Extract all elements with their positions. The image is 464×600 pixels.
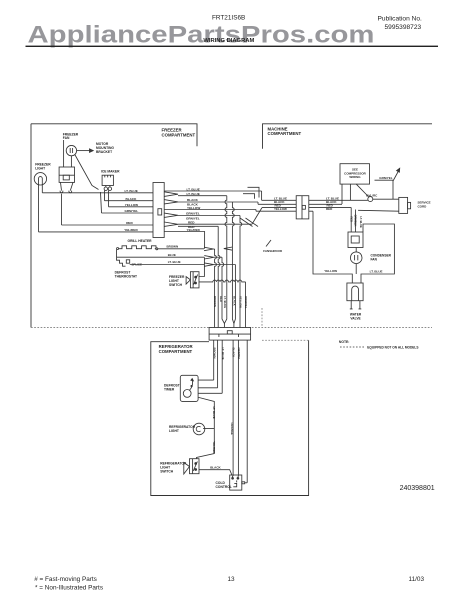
freezer light lamp	[34, 173, 46, 185]
svg-text:BLACK: BLACK	[187, 198, 199, 202]
svg-text:LT. BLUE: LT. BLUE	[223, 296, 227, 308]
svg-text:LT. BLUE: LT. BLUE	[125, 189, 138, 193]
refrigerator light switch S2	[190, 459, 200, 474]
vertical bundle grn/yel	[240, 216, 242, 328]
wire switch to bundle	[199, 280, 246, 282]
refrigerator bundle labels rotated	[212, 348, 241, 361]
fanshroud pointer	[266, 240, 271, 247]
wire joins from freezer	[252, 191, 262, 224]
svg-text:OVL/RC: OVL/RC	[366, 193, 378, 197]
svg-text:COMPARTMENT: COMPARTMENT	[162, 132, 196, 137]
wire black out	[178, 201, 258, 203]
connector block CB1 freezer bulkhead	[153, 183, 164, 238]
refrigerator dashed top	[262, 339, 309, 341]
svg-text:GRN/YEL: GRN/YEL	[186, 212, 200, 216]
svg-text:GRN/YEL: GRN/YEL	[379, 176, 393, 180]
svg-text:YELLOW: YELLOW	[324, 269, 337, 273]
bus wire red	[262, 207, 351, 209]
svg-text:13: 13	[228, 576, 236, 583]
wire red	[62, 224, 154, 226]
svg-text:RED: RED	[349, 217, 353, 223]
splice leaf lt.blue pair	[164, 192, 178, 197]
svg-text:WIRING: WIRING	[349, 175, 361, 179]
grill heater element R1	[117, 248, 119, 250]
svg-text:FANSHROUD: FANSHROUD	[263, 249, 283, 253]
svg-text:NOTE:: NOTE:	[339, 340, 350, 344]
freezer light switch S1	[190, 272, 199, 288]
wire orn/yel down to cold control tab	[246, 340, 248, 483]
svg-text:SWITCH: SWITCH	[160, 470, 174, 474]
refrigerator light lamp	[193, 423, 205, 435]
svg-text:RED: RED	[219, 296, 223, 302]
wire compressor box to lt.blue bus	[349, 184, 351, 200]
heater wire labels	[167, 245, 181, 265]
wire lt.blue out top	[164, 190, 261, 192]
wire label to fan motor box	[63, 140, 65, 167]
splice dot	[126, 260, 129, 263]
wire grn/yel	[101, 192, 154, 213]
motor mounting bracket label	[96, 142, 114, 154]
top border machine section	[263, 124, 433, 149]
svg-text:THERMOSTAT: THERMOSTAT	[115, 274, 137, 278]
svg-text:ORN/YEL: ORN/YEL	[237, 348, 241, 361]
wire red down to relay	[350, 208, 352, 233]
svg-text:BROWN: BROWN	[213, 296, 217, 307]
top border freezer section	[31, 124, 197, 146]
dashed separator freezer/machine vs lower	[31, 327, 432, 329]
svg-text:* = Non-Illustrated Parts: * = Non-Illustrated Parts	[35, 585, 103, 592]
defrost timer label	[164, 384, 180, 392]
freezer fan label	[63, 132, 79, 140]
wire fan to motor box	[70, 156, 72, 167]
wire brown	[158, 248, 204, 250]
svg-text:WIRING DIAGRAM: WIRING DIAGRAM	[203, 38, 254, 44]
wire relay to condenser fan	[355, 248, 357, 252]
timer stubs to verticals	[198, 380, 222, 393]
wire yellow out	[164, 209, 256, 211]
valve wire labels	[324, 269, 382, 273]
svg-text:BROWN: BROWN	[167, 245, 179, 249]
svg-text:# = Fast-moving Parts: # = Fast-moving Parts	[34, 576, 97, 583]
condenser fan motor M2	[350, 252, 362, 264]
refrigerator light label	[169, 425, 196, 433]
wire timer to light chain	[197, 397, 215, 458]
heater left column	[116, 250, 118, 258]
ice maker	[102, 175, 113, 185]
wire black down to cold control	[232, 340, 233, 477]
svg-text:ICE MAKER: ICE MAKER	[101, 169, 120, 173]
svg-text:RED: RED	[326, 207, 333, 211]
wire lt.blue timer down	[217, 340, 219, 388]
svg-text:YELLOW: YELLOW	[274, 207, 287, 211]
wire down to cold control right	[237, 340, 240, 477]
svg-text:LT. BLUE: LT. BLUE	[370, 269, 383, 273]
svg-text:GRN/YEL: GRN/YEL	[125, 209, 139, 213]
connector block CB2 machine bulkhead	[296, 196, 309, 219]
wire motor lead down to red wire	[61, 194, 63, 225]
svg-text:LT. BLUE: LT. BLUE	[187, 192, 200, 196]
svg-text:YELLOW: YELLOW	[239, 296, 243, 308]
see compressor wiring box	[340, 164, 370, 184]
svg-text:YELLOW: YELLOW	[125, 203, 138, 207]
svg-text:FAN: FAN	[371, 257, 378, 261]
wire lt.blue	[42, 192, 153, 194]
svg-text:LIGHT: LIGHT	[35, 166, 45, 170]
wire lt.blue loop to water valve	[361, 224, 394, 283]
wire compressor box diagonal to overload	[356, 184, 369, 197]
svg-text:YELLOW: YELLOW	[187, 206, 200, 210]
ground arrow	[393, 172, 398, 182]
svg-text:YEL/RED: YEL/RED	[187, 228, 201, 232]
svg-text:TIMER: TIMER	[164, 388, 175, 392]
wire yel/red	[39, 231, 154, 233]
svg-text:EQUIPPED NOT ON ALL MODELS: EQUIPPED NOT ON ALL MODELS	[367, 345, 418, 349]
svg-text:BLACK: BLACK	[126, 197, 138, 201]
svg-text:BRACKET: BRACKET	[96, 150, 112, 154]
svg-text:240398801: 240398801	[400, 485, 435, 492]
wire red to bundle	[178, 225, 218, 227]
left border	[30, 124, 32, 328]
refrigerator light switch label	[160, 462, 187, 474]
wire red out	[178, 223, 252, 225]
svg-text:BLACK: BLACK	[232, 348, 236, 358]
bus labels right	[326, 197, 339, 212]
bus wire lt.blue	[262, 199, 368, 201]
vertical bundle black pair merge	[232, 202, 235, 324]
cold control thermostat	[230, 475, 242, 490]
svg-text:SWITCH: SWITCH	[169, 283, 183, 287]
relay wire labels rotated	[349, 215, 363, 228]
splice leaf red pair	[164, 222, 178, 226]
freezer fan motor M1	[66, 145, 76, 155]
svg-text:ORN/BLK: ORN/BLK	[354, 215, 358, 227]
wire yel/red out and down	[164, 232, 204, 249]
wire light lead to yel/red	[38, 181, 40, 232]
fan motor housing	[59, 167, 74, 182]
splice leaf black pair	[164, 200, 178, 204]
svg-text:5995398723: 5995398723	[385, 24, 422, 31]
chain labels rotated	[212, 407, 216, 454]
labels right of CB1	[186, 187, 201, 232]
svg-text:LT. BLUE: LT. BLUE	[212, 407, 216, 419]
svg-text:LT. BLUE: LT. BLUE	[187, 187, 200, 191]
freezer wire labels	[124, 189, 138, 232]
splice leaf lt.blue heater	[204, 263, 214, 266]
wire fan diagonal to ice maker	[75, 155, 99, 190]
svg-text:VALVE: VALVE	[350, 316, 360, 320]
condenser fan label	[371, 253, 392, 261]
svg-text:Publication No.: Publication No.	[378, 16, 423, 23]
cold control label	[216, 481, 232, 489]
wire light lead to lt.blue	[41, 181, 43, 193]
bus labels left	[274, 197, 287, 212]
freezer light label	[35, 163, 51, 171]
wire diagonal to service cord	[358, 209, 399, 212]
wire into switch	[199, 257, 204, 276]
wire yellow to water valve	[313, 211, 352, 283]
svg-text:BLACK: BLACK	[233, 296, 237, 306]
svg-text:11/03: 11/03	[409, 576, 425, 583]
start relay box	[348, 232, 363, 248]
dashed machine corner	[261, 308, 263, 328]
service cord plug	[399, 197, 408, 213]
harness channel upper	[243, 187, 259, 198]
svg-text:CORD: CORD	[418, 205, 428, 209]
bundle labels rotated	[213, 296, 248, 309]
wire yellow	[109, 190, 154, 206]
wire lt.blue heater	[130, 264, 205, 266]
wire light to chain	[203, 428, 214, 430]
vertical bundle wire red	[218, 226, 220, 327]
svg-text:COMPARTMENT: COMPARTMENT	[268, 131, 302, 136]
vertical bundle wire brown	[215, 249, 217, 328]
defrost thermostat	[117, 257, 126, 266]
service cord label	[418, 201, 431, 209]
splice leaf brown	[204, 247, 214, 251]
wire lt.blue to bundle	[178, 195, 227, 197]
defrost timer	[180, 375, 198, 401]
svg-text:FAN: FAN	[63, 136, 70, 140]
svg-text:AppliancePartsPros.com: AppliancePartsPros.com	[28, 22, 375, 49]
wire black switch to cold control	[199, 470, 232, 476]
wire brown to bundle	[214, 248, 215, 250]
vertical bundle switch wire	[245, 282, 247, 328]
vertical bundle lt.blue pair merge	[222, 196, 227, 324]
freezer light switch label	[169, 275, 185, 287]
connector block CB3 cabinet bulkhead	[209, 328, 251, 341]
wire black	[105, 190, 154, 200]
svg-text:BROWN: BROWN	[212, 348, 216, 359]
svg-text:COMPARTMENT: COMPARTMENT	[159, 349, 193, 354]
splice leaf blue	[204, 256, 214, 259]
wire compressor box to black bus	[341, 184, 343, 204]
svg-text:RED: RED	[126, 221, 133, 225]
svg-text:YEL/RED: YEL/RED	[124, 228, 138, 232]
bus wire black	[258, 203, 342, 205]
splice leaf red/black join	[224, 247, 233, 250]
water valve	[347, 283, 363, 301]
wire grn/yel to bundle	[178, 215, 240, 217]
motor leads with boots	[61, 182, 74, 190]
svg-text:YEL/RED: YEL/RED	[212, 441, 216, 453]
svg-text:ORN/YEL: ORN/YEL	[244, 296, 248, 309]
svg-text:BLACK: BLACK	[210, 465, 221, 469]
refrigerator compartment box	[151, 340, 309, 495]
water valve label	[350, 312, 362, 320]
motor mounting bracket pointer	[77, 150, 90, 152]
defrost thermostat label	[115, 270, 137, 278]
wire overload to service cord	[373, 198, 399, 200]
bus wire yellow	[256, 210, 313, 212]
svg-text:CONTROL: CONTROL	[216, 485, 232, 489]
wire down to timer stub3	[221, 340, 223, 393]
wire fan to valve bus	[355, 264, 357, 275]
svg-text:GRILL HEATER: GRILL HEATER	[128, 239, 153, 243]
wire lt.blue heater to bundle	[214, 264, 236, 266]
svg-text:LT. BLUE: LT. BLUE	[221, 348, 225, 360]
ground wire grn/yel	[375, 180, 394, 199]
svg-text:LT. BLUE: LT. BLUE	[168, 260, 181, 264]
svg-text:BLUE: BLUE	[168, 253, 176, 257]
overload relay OVL/RC	[368, 197, 373, 202]
svg-text:LIGHT: LIGHT	[169, 429, 179, 433]
harness channel lower diagonals	[240, 218, 258, 227]
header rule	[26, 46, 439, 47]
wire blue to bundle	[214, 256, 222, 258]
svg-text:ORANGE: ORANGE	[230, 423, 234, 435]
svg-text:FRT21IS6B: FRT21IS6B	[212, 15, 245, 22]
wire blue	[117, 256, 205, 258]
splice leaf grn/yel pair	[164, 213, 178, 217]
wire orn/blk down to relay	[355, 210, 357, 233]
svg-text:LT. BLUE: LT. BLUE	[359, 217, 363, 228]
wire brown down	[213, 340, 215, 380]
